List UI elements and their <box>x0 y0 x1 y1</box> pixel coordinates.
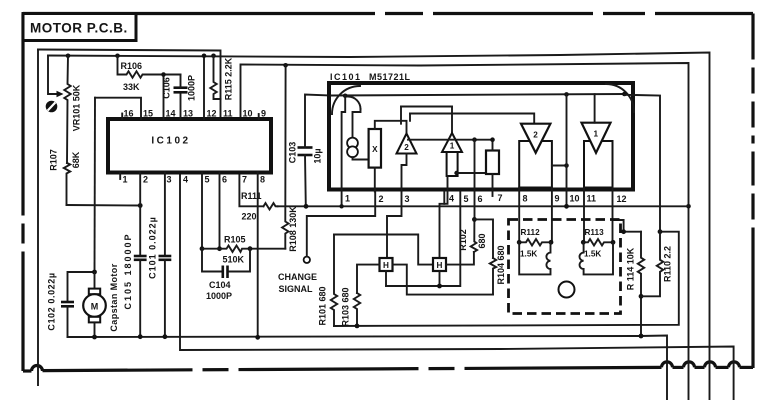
junction dot pin1 on wire E <box>339 204 343 208</box>
svg-text:12: 12 <box>207 109 217 119</box>
resistor R113 1.5K horizontal zigzag <box>583 239 613 245</box>
C103 label <box>288 142 298 164</box>
svg-text:6: 6 <box>222 175 227 185</box>
wire: small triangle2 output to pin3 <box>402 154 407 192</box>
C106 value <box>187 75 197 101</box>
svg-text:R110 2.2: R110 2.2 <box>663 246 673 282</box>
C101 plates <box>159 255 172 258</box>
IC102 pin 9 tick <box>258 114 260 119</box>
C103 bottom stub to wire E <box>304 155 307 206</box>
junction dot pin8 on bus <box>255 335 260 340</box>
junction dot R114 bottom on bus <box>639 334 644 339</box>
svg-text:6: 6 <box>478 194 483 204</box>
wire: pin6 branch over to R104 <box>474 219 493 258</box>
IC102 pin8 wire down to bus <box>257 173 259 338</box>
junction dot R105 right <box>248 246 253 251</box>
resistor VR101 50K vertical zigzag <box>64 56 70 163</box>
R115 label <box>224 57 234 100</box>
junction dot pin14 on R106 wire <box>161 72 166 77</box>
IC102 box <box>108 119 271 173</box>
C101 label <box>148 216 158 279</box>
VR101 value label <box>72 84 82 131</box>
capacitor C101 on pin3 line top stub <box>164 173 166 257</box>
junction dot H line at pin6 <box>472 137 477 142</box>
svg-text:M51721L: M51721L <box>369 72 411 82</box>
svg-text:2: 2 <box>379 194 384 204</box>
IC101 pin 12 wire with jog to R114 <box>612 188 614 243</box>
chain border bottom segment <box>673 366 684 369</box>
junction dot pin5 node <box>200 246 205 251</box>
svg-text:R104 680: R104 680 <box>496 245 506 284</box>
junction dot R113 right <box>611 240 616 245</box>
svg-text:C104: C104 <box>209 280 231 290</box>
capacitor C104 loop wires <box>202 249 223 272</box>
junction dot H2 bottom <box>437 284 442 289</box>
IC101 pin 5 wire down to H bottoms <box>386 192 460 287</box>
hall sensor H1 <box>380 258 393 271</box>
small triangle 1 pedestal bar <box>447 152 458 176</box>
capacitor C106 plates <box>174 86 188 89</box>
C102 bottom leg to bus <box>68 306 96 337</box>
IC102 pin 14 stub <box>163 75 165 120</box>
svg-text:16: 16 <box>124 109 134 119</box>
svg-text:2: 2 <box>404 143 409 152</box>
IC101 pin 11 wire <box>583 188 585 243</box>
capacitor C103 plates <box>298 146 313 149</box>
svg-text:MOTOR P.C.B.: MOTOR P.C.B. <box>30 21 128 36</box>
capstan motor symbol <box>94 272 96 289</box>
power amp big triangle 2 <box>521 124 550 153</box>
svg-text:R 114 10K: R 114 10K <box>626 247 636 290</box>
wire: D pin4 IC102 down and across bottom to exit <box>180 173 734 400</box>
IC101 pin 3 jog wire to H1 top <box>387 192 402 259</box>
junction dot W1 at right arc <box>622 92 627 97</box>
svg-text:11: 11 <box>587 194 597 204</box>
svg-text:M: M <box>91 302 99 312</box>
junction dot R112 left <box>517 240 522 245</box>
C105 label <box>123 232 133 309</box>
chain border top <box>23 12 753 15</box>
svg-text:3: 3 <box>405 194 410 204</box>
C101 bottom stub to bus <box>164 260 166 337</box>
svg-text:4: 4 <box>183 175 188 185</box>
capacitor C102 left leg <box>68 272 93 302</box>
C106 label <box>162 77 172 99</box>
motor rotor circle <box>559 282 575 298</box>
svg-text:R105: R105 <box>224 235 246 245</box>
svg-text:33K: 33K <box>123 82 140 92</box>
IC102 pin6 wire down <box>219 173 221 249</box>
svg-text:11: 11 <box>223 109 233 119</box>
chain border left <box>21 14 24 372</box>
chain border bottom dashed run <box>43 367 662 370</box>
junction dot R108 top on wire B <box>283 63 288 68</box>
amplifier small triangle 1 <box>442 133 462 152</box>
wire: internal line y106 riser <box>400 107 402 124</box>
svg-text:680: 680 <box>477 233 487 248</box>
wire: internal H line y139.7 <box>408 140 493 151</box>
svg-text:CHANGE: CHANGE <box>278 272 317 282</box>
svg-text:R112: R112 <box>521 228 541 237</box>
junction dot R102 top at pin6 <box>472 217 477 222</box>
svg-text:R101 680: R101 680 <box>318 286 328 325</box>
svg-text:1: 1 <box>450 142 455 151</box>
IC102 pin 1 tick <box>119 173 121 180</box>
current source arc tap <box>348 97 361 110</box>
wire: X box bottom to pin2 <box>374 168 376 192</box>
svg-text:3: 3 <box>167 175 172 185</box>
resistor R105 510K horizontal zigzag <box>202 246 285 252</box>
svg-text:1000P: 1000P <box>206 291 232 301</box>
C102 label <box>47 272 57 330</box>
svg-text:68K: 68K <box>71 151 81 168</box>
svg-text:1: 1 <box>345 194 350 204</box>
big triangle 1 pedestal box <box>584 141 613 188</box>
C103 top stub to IC101 <box>305 95 331 148</box>
C105 bottom stub to bus <box>139 260 141 337</box>
junction dot R106 top on rail <box>115 54 120 59</box>
svg-text:7: 7 <box>498 193 503 203</box>
svg-text:2: 2 <box>143 175 148 185</box>
svg-text:1: 1 <box>594 130 599 139</box>
junction dot wire B / wire E <box>686 204 691 209</box>
wire: R101 top link to H2 left <box>334 235 433 265</box>
Capstan Motor label <box>109 263 119 331</box>
IC101 box <box>329 83 633 190</box>
svg-text:8: 8 <box>260 175 265 185</box>
wire: current source to X box <box>353 157 369 159</box>
resistor R103 680 vertical zigzag <box>354 293 360 326</box>
motor winding coil L1 <box>519 242 550 274</box>
hall sensor H2 <box>433 258 446 271</box>
big triangle 2 pedestal box <box>519 141 552 188</box>
IC102 pin5 wire down <box>201 173 203 249</box>
svg-text:9: 9 <box>261 109 266 119</box>
chain border bottom segment <box>716 366 729 369</box>
wire: pin6 vertical through box <box>474 140 476 220</box>
IC102 pin 12 stub from rail <box>203 56 205 119</box>
resistor R112 1.5K horizontal zigzag <box>519 239 551 245</box>
dashed function box <box>509 220 621 314</box>
wire: H1 bottom to pin5 run <box>385 271 387 286</box>
wire: E horizontal pin7 R111 to wire B <box>239 173 263 207</box>
svg-text:IC102: IC102 <box>151 136 190 147</box>
wire: left long vertical to motor <box>94 98 97 272</box>
IC102 pin 15 wire from left loop <box>95 98 141 119</box>
wire: internal W1 rail across IC101 <box>331 94 624 96</box>
motor winding coil L2 <box>579 242 613 274</box>
svg-text:14: 14 <box>166 109 176 119</box>
junction dot pin6 node <box>217 246 222 251</box>
R107 label <box>49 149 59 171</box>
junction dot H line at resistor box <box>490 137 495 142</box>
IC101 internal corner arc top-right <box>606 84 634 112</box>
svg-text:10: 10 <box>570 194 580 204</box>
wire: resistor box bottom tick pin7 <box>492 174 494 196</box>
resistor R115 2.2K vertical zigzag with jog to pin11 <box>210 56 220 99</box>
svg-text:9: 9 <box>555 194 560 204</box>
svg-text:510K: 510K <box>223 255 245 265</box>
border hop bump at rail exit <box>705 362 716 367</box>
wire: pin1 internal jog down <box>342 96 346 207</box>
R114 label <box>626 247 636 290</box>
C102 plates <box>61 301 74 304</box>
chain border bottom segment <box>695 366 705 369</box>
wire: internal riser and line to small triangle1 apex <box>409 114 411 121</box>
svg-text:H: H <box>383 261 389 270</box>
junction dot W1 pin1 branch <box>343 94 348 99</box>
svg-text:VR101 50K: VR101 50K <box>72 84 82 131</box>
amplifier small triangle 2 <box>397 134 417 154</box>
C105 plates <box>134 255 147 258</box>
svg-text:4: 4 <box>449 194 454 204</box>
chain border bottom segment left corner <box>23 369 32 372</box>
junction dot R114 at R110 link <box>639 294 644 299</box>
svg-text:R113: R113 <box>585 228 605 237</box>
junction dot C103 bottom on wire E <box>304 204 309 209</box>
svg-text:2: 2 <box>533 131 538 140</box>
junction dot C101 on bus <box>163 334 168 339</box>
wire: bar to pin4 jog <box>440 176 448 258</box>
wire: H2 right to R102 <box>446 252 474 265</box>
resistor R107 68K vertical zigzag <box>64 163 70 205</box>
svg-text:5: 5 <box>464 194 469 204</box>
wire: spur from T2 pedestal to pin10 <box>552 165 567 167</box>
X box multiplier <box>369 129 381 168</box>
R103 label <box>341 287 351 326</box>
IC101 pin 9 wire <box>551 188 553 243</box>
wire: H1 left to R103 <box>357 265 380 293</box>
wire: pin11 top line horizontal to R115 jog <box>38 50 221 120</box>
R102 label <box>458 229 468 251</box>
border hop bump at wire D exit <box>729 362 740 367</box>
svg-text:C103: C103 <box>288 142 298 164</box>
svg-text:220: 220 <box>242 212 257 222</box>
svg-text:5: 5 <box>205 175 210 185</box>
svg-text:IC101: IC101 <box>330 72 362 82</box>
R101 label <box>318 286 328 325</box>
border hop bump at left exit wire <box>32 366 43 372</box>
junction dot R110 top <box>658 229 663 234</box>
R108 label <box>288 206 298 252</box>
svg-text:1.5K: 1.5K <box>584 250 601 259</box>
svg-text:12: 12 <box>617 194 627 204</box>
capacitor C105 on pin2 line top stub <box>139 173 141 257</box>
svg-text:R106: R106 <box>121 61 143 71</box>
svg-text:15: 15 <box>143 109 153 119</box>
wire: change signal to IC101 pin2 <box>307 192 375 257</box>
junction dot R107 wire at pin2 line <box>138 203 143 208</box>
chain border right <box>751 14 754 369</box>
border hop bump at bus exit wire <box>662 362 673 367</box>
junction dot C105 on bus <box>138 334 143 339</box>
svg-text:H: H <box>437 261 443 270</box>
svg-text:X: X <box>372 145 378 154</box>
svg-text:10: 10 <box>243 109 253 119</box>
svg-text:7: 7 <box>242 175 247 185</box>
chain border bottom segment right corner <box>740 366 754 369</box>
title box MOTOR P.C.B. <box>23 14 136 41</box>
svg-text:R115 2.2K: R115 2.2K <box>224 57 234 100</box>
wire: pin10 IC102 line B across top to right side down <box>241 63 689 400</box>
svg-text:10µ: 10µ <box>313 148 323 163</box>
svg-text:1: 1 <box>123 175 128 185</box>
wire: bar dot to resistor box corner <box>457 172 487 174</box>
svg-text:C106: C106 <box>162 77 172 99</box>
junction dot pin12 on rail <box>202 54 207 59</box>
wire: supply rail y=55.5 from VR101 corner to right exit <box>48 53 710 400</box>
svg-text:1.5K: 1.5K <box>520 250 537 259</box>
wire: E continues after R111 <box>278 205 689 207</box>
wire: H1 right to y294 run <box>393 265 494 295</box>
VR101 wiper arrowhead <box>57 91 64 97</box>
IC101 pin 8 wire <box>518 188 520 243</box>
IC101 pin 4 wire <box>443 192 445 204</box>
wire: IC101 right side exit to R110 branch <box>624 95 660 232</box>
resistor R111 220 horizontal zigzag <box>264 203 278 209</box>
border hop bump at wire B exit <box>684 362 695 367</box>
junction dot bar output <box>454 171 458 175</box>
resistor R104 680 vertical zigzag <box>490 258 496 295</box>
junction dot R103 bottom on wire F <box>355 324 360 329</box>
R107 value <box>71 151 81 168</box>
wire: H2 bottom to pin5 run <box>439 271 441 286</box>
svg-text:Capstan Motor: Capstan Motor <box>109 263 119 331</box>
IC101 internal corner arc top-left <box>332 86 360 114</box>
resistor R101 680 vertical zigzag <box>331 235 337 327</box>
junction dot R113 left <box>581 240 586 245</box>
resistor R106 33K horizontal zigzag <box>118 56 181 78</box>
wire: big triangle1 base feed from W1 <box>594 94 596 123</box>
current source symbol circles <box>347 138 358 149</box>
svg-text:R102: R102 <box>458 229 468 251</box>
internal resistor box <box>486 151 499 175</box>
svg-text:R107: R107 <box>49 149 59 171</box>
power amp big triangle 1 <box>582 123 611 153</box>
C106 top stub <box>180 75 182 88</box>
wire: R107 bottom to IC102 pin2 node <box>67 204 141 207</box>
R104 label <box>496 245 506 284</box>
resistor R110 2.2 vertical zigzag <box>641 232 663 297</box>
potentiometer VR101 loop wire with wiper arrow <box>48 56 58 95</box>
junction dot W1 spur <box>564 92 569 97</box>
svg-text:1000P: 1000P <box>187 75 197 101</box>
svg-text:C105 18000P: C105 18000P <box>123 232 133 309</box>
IC102 pin 13 stub from C106 <box>180 92 182 119</box>
C104 plates <box>222 266 225 279</box>
svg-text:C102 0.022µ: C102 0.022µ <box>47 272 57 330</box>
junction dot pin10 on wire E <box>564 204 569 209</box>
junction dot motor top <box>92 270 97 275</box>
CHANGE SIGNAL terminal circle <box>304 257 310 263</box>
wire: X box top link to small triangle 2 apex <box>375 121 407 134</box>
C103 value <box>313 148 323 163</box>
resistor R108 130K vertical zigzag <box>282 65 288 248</box>
screw adjust symbol <box>46 101 58 113</box>
junction dot motor bottom on bus <box>92 335 97 340</box>
svg-text:8: 8 <box>523 194 528 204</box>
wire: pin11 top line (left frame) vertical <box>37 50 39 386</box>
svg-text:SIGNAL: SIGNAL <box>279 284 314 294</box>
resistor R102 680 vertical zigzag <box>471 219 477 252</box>
svg-text:R103 680: R103 680 <box>341 287 351 326</box>
IC102 pin 16 tick <box>121 114 123 120</box>
R102 value <box>477 233 487 248</box>
wire: bus y=337 from C102 to right exit <box>68 336 668 400</box>
resistor R114 10K vertical zigzag <box>638 232 644 337</box>
wire: internal line y113 to big triangle2 base <box>410 114 534 124</box>
R110 label <box>663 246 673 282</box>
wire: F from R101/R103 bottom up right side to R110 top <box>334 232 679 326</box>
junction dot R115 top on rail <box>211 54 216 59</box>
svg-text:R108 130K: R108 130K <box>288 206 298 252</box>
svg-text:13: 13 <box>183 109 193 119</box>
svg-text:C101 0.022µ: C101 0.022µ <box>148 216 158 279</box>
junction dot R112 right <box>549 240 554 245</box>
junction dot VR101 top on rail <box>66 54 71 59</box>
